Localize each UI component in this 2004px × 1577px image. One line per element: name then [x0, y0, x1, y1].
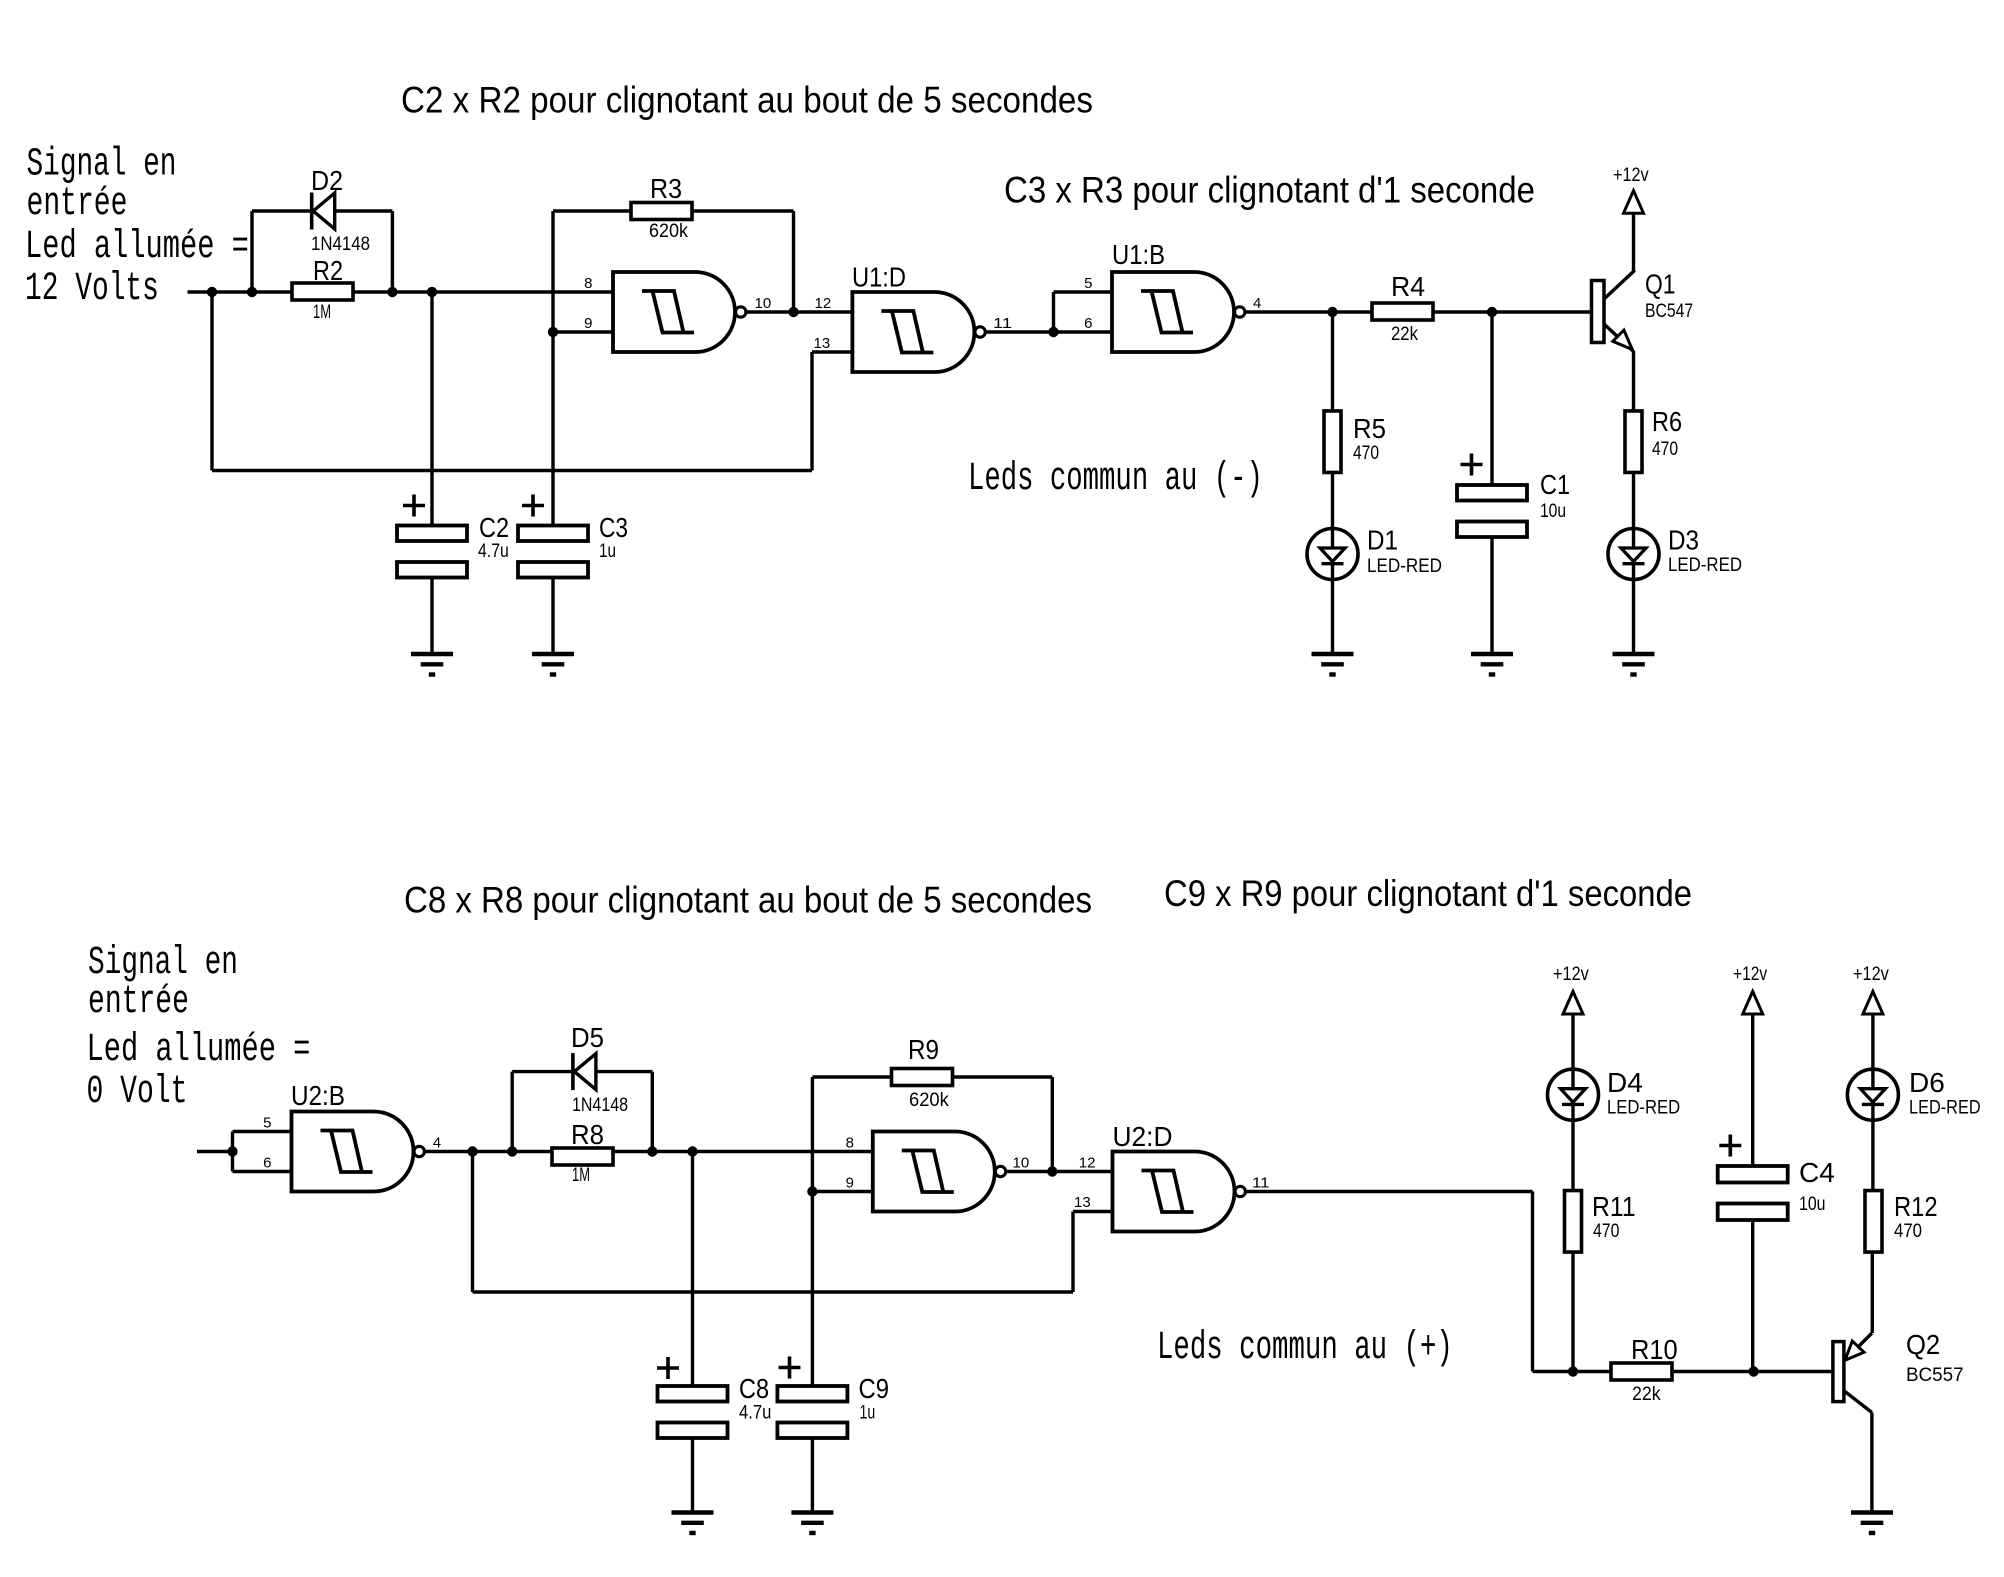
wire Q2 emitter to ground: [1870, 1413, 1873, 1513]
label R3: [650, 173, 682, 204]
svg-text:6: 6: [263, 1155, 271, 1172]
junction out-feedback: [467, 1146, 477, 1156]
wire feedback right vertical: [810, 352, 813, 471]
wire Q1 emitter down: [1632, 351, 1635, 411]
svg-text:entrée: entrée: [27, 182, 128, 227]
ground Q2: [1851, 1513, 1893, 1534]
svg-text:+12v: +12v: [1853, 964, 1889, 985]
title C3xR3: [1004, 170, 1535, 211]
power +12v D4: [1553, 964, 1589, 985]
junction C2 top: [427, 287, 437, 297]
svg-text:11: 11: [1252, 1175, 1270, 1192]
wire D2 top right: [335, 209, 393, 212]
svg-text:1u: 1u: [599, 541, 616, 562]
text Leds commun au plus: [1157, 1325, 1453, 1371]
wire fb right vertical: [1071, 1212, 1074, 1293]
value C1 10u: [1540, 501, 1566, 522]
svg-text:Leds commun au (+): Leds commun au (+): [1157, 1325, 1453, 1371]
power arrow D6: [1863, 991, 1883, 1014]
svg-text:8: 8: [846, 1135, 854, 1152]
pin 9 label: [584, 315, 592, 332]
wire R3 top right: [692, 209, 794, 212]
wire C9 to ground: [811, 1438, 814, 1513]
svg-text:BC547: BC547: [1645, 301, 1693, 322]
wire pin9 stub: [553, 330, 613, 333]
svg-text:LED-RED: LED-RED: [1909, 1098, 1981, 1119]
power +12v D6: [1853, 964, 1889, 985]
label R5: [1353, 413, 1386, 444]
nand gate U2:D: [1113, 1152, 1246, 1232]
svg-text:5: 5: [1084, 275, 1092, 292]
value BC547: [1645, 301, 1693, 322]
junction gate1 out: [788, 307, 798, 317]
text Led allumee (top): [25, 225, 249, 270]
label C4: [1799, 1157, 1835, 1188]
wire U2:B pin5 stub: [233, 1130, 292, 1133]
label D4: [1607, 1067, 1643, 1098]
pin 12 label U2:D: [1079, 1155, 1096, 1172]
value R6 470: [1652, 439, 1678, 460]
plus C8: [657, 1357, 679, 1379]
title C2xR2: [401, 80, 1093, 121]
svg-text:4.7u: 4.7u: [739, 1403, 771, 1424]
wire C2 vertical: [430, 292, 433, 526]
resistor R10: [1611, 1363, 1672, 1380]
resistor R6: [1625, 411, 1642, 473]
svg-text:C2 x R2 pour clignotant au bou: C2 x R2 pour clignotant au bout de 5 sec…: [401, 80, 1093, 121]
wire +12v to C4: [1751, 1014, 1754, 1166]
wire R9 right vertical: [1051, 1077, 1054, 1172]
wire C8 to ground: [691, 1438, 694, 1513]
wire input main: [188, 290, 614, 293]
wire D6 to R12: [1871, 1120, 1874, 1190]
value C4 10u: [1799, 1194, 1826, 1215]
wire +12v to D6: [1871, 1014, 1874, 1069]
pin 10 label: [755, 295, 772, 312]
wire out down: [1531, 1192, 1534, 1372]
wire feedback left vertical: [210, 292, 213, 471]
svg-text:+12v: +12v: [1613, 165, 1649, 186]
text Leds commun au moins: [968, 456, 1263, 502]
pin 6 label U2:B: [263, 1155, 271, 1172]
ground C9: [791, 1513, 833, 1534]
junction U2:C out: [1047, 1166, 1057, 1176]
svg-text:C1: C1: [1540, 469, 1570, 500]
svg-text:8: 8: [584, 275, 592, 292]
wire pin13 stub U1:D: [812, 350, 852, 353]
wire input bottom: [197, 1150, 233, 1153]
wire R9 top left: [812, 1075, 891, 1078]
value R5 470: [1353, 443, 1379, 464]
value D3 LED-RED: [1668, 555, 1742, 576]
wire pin9 stub U2:C: [812, 1190, 872, 1193]
value 620k bottom: [909, 1090, 949, 1111]
svg-text:4.7u: 4.7u: [478, 541, 509, 562]
svg-text:C9 x R9 pour clignotant d'1 se: C9 x R9 pour clignotant d'1 seconde: [1164, 873, 1692, 914]
wire D2 right vertical: [391, 211, 394, 292]
resistor R11: [1565, 1191, 1582, 1253]
value 22k: [1391, 324, 1418, 345]
pin 4 label: [1253, 295, 1261, 312]
nand gate U1:B: [1112, 272, 1245, 352]
svg-text:1N4148: 1N4148: [572, 1095, 628, 1116]
wire +12v to Q1: [1632, 213, 1635, 271]
transistor Q1: [1592, 270, 1635, 351]
ground C1: [1471, 654, 1513, 675]
pin 9 label U2:C: [846, 1175, 854, 1192]
text Signal en (bottom): [88, 940, 238, 985]
led D3: [1608, 529, 1659, 580]
wire C8 vertical: [691, 1152, 694, 1387]
wire C9 vertical: [811, 1192, 814, 1387]
label C1: [1540, 469, 1570, 500]
wire out to R10: [1533, 1370, 1612, 1373]
svg-text:R10: R10: [1631, 1334, 1678, 1365]
diode D2: [312, 193, 335, 230]
label R11: [1592, 1191, 1636, 1222]
junction D2 right: [387, 287, 397, 297]
wire R3 left vertical: [551, 211, 554, 332]
title C9xR9: [1164, 873, 1692, 914]
transistor Q2: [1833, 1333, 1872, 1413]
pin 8 label U2:C: [846, 1135, 854, 1152]
svg-text:10u: 10u: [1799, 1194, 1826, 1215]
pin 13 label: [814, 335, 831, 352]
svg-text:4: 4: [433, 1135, 441, 1152]
junction C8 top: [687, 1146, 697, 1156]
svg-text:R3: R3: [650, 173, 682, 204]
wire R12 to Q2: [1871, 1252, 1874, 1333]
svg-text:13: 13: [1074, 1194, 1091, 1211]
title C8xR8: [404, 880, 1092, 921]
label D5: [571, 1022, 604, 1053]
label D6: [1909, 1067, 1945, 1098]
label R12: [1894, 1191, 1938, 1222]
svg-text:D2: D2: [311, 165, 343, 196]
svg-text:LED-RED: LED-RED: [1607, 1098, 1680, 1119]
svg-text:10: 10: [755, 295, 772, 312]
wire gate1 out: [747, 310, 853, 313]
label C2: [479, 512, 509, 543]
wire C1 vertical: [1490, 312, 1493, 485]
capacitor C4: [1718, 1166, 1788, 1220]
wire U1:D out: [986, 330, 1054, 333]
svg-text:C3 x R3 pour clignotant d'1 se: C3 x R3 pour clignotant d'1 seconde: [1004, 170, 1535, 211]
value R12 470: [1894, 1221, 1922, 1242]
pin 13 label U2:D: [1074, 1194, 1091, 1211]
wire pin13 stub U2:D: [1073, 1210, 1113, 1213]
text Signal en (top): [27, 142, 177, 187]
junction pin9 node: [548, 327, 558, 337]
wire D5 top left: [512, 1070, 573, 1073]
label U2:B: [291, 1080, 345, 1111]
svg-text:D4: D4: [1607, 1067, 1643, 1098]
label R2: [313, 255, 343, 286]
wire gate U2:C out: [1006, 1170, 1112, 1173]
pin 10 label U2:C: [1013, 1155, 1030, 1172]
pin 5 label U2:B: [263, 1115, 271, 1132]
svg-text:D1: D1: [1367, 525, 1398, 556]
junction C1 top: [1487, 307, 1497, 317]
svg-text:22k: 22k: [1632, 1384, 1661, 1405]
svg-text:620k: 620k: [649, 221, 688, 242]
svg-text:C8 x R8 pour clignotant au bou: C8 x R8 pour clignotant au bout de 5 sec…: [404, 880, 1092, 921]
label C3: [599, 512, 628, 543]
svg-text:4: 4: [1253, 295, 1261, 312]
svg-text:470: 470: [1652, 439, 1678, 460]
wire pin5 stub: [1054, 290, 1113, 293]
label R4: [1391, 271, 1425, 302]
svg-text:+12v: +12v: [1733, 964, 1768, 985]
wire U2:B out: [425, 1150, 552, 1153]
led D4: [1548, 1069, 1599, 1120]
svg-text:10: 10: [1013, 1155, 1030, 1172]
value BC557: [1906, 1365, 1964, 1386]
resistor R3: [631, 203, 692, 220]
capacitor C9: [777, 1386, 847, 1438]
wire D5 top right: [596, 1070, 652, 1073]
wire C4 to junction: [1751, 1219, 1754, 1372]
wire D1 to ground: [1331, 580, 1334, 655]
capacitor C3: [518, 526, 588, 578]
svg-text:R2: R2: [313, 255, 343, 286]
text Led allumee (bottom): [87, 1028, 311, 1073]
svg-text:12: 12: [815, 295, 832, 312]
value D1 LED-RED: [1367, 556, 1442, 577]
svg-text:LED-RED: LED-RED: [1668, 555, 1742, 576]
wire U2:B bracket: [231, 1132, 234, 1172]
wire D3 to ground: [1632, 580, 1635, 655]
svg-text:0 Volt: 0 Volt: [87, 1070, 188, 1115]
svg-text:U2:D: U2:D: [1113, 1121, 1173, 1152]
pin 4 label U2:B: [433, 1135, 441, 1152]
wire U1:B out: [1245, 310, 1372, 313]
wire R3 right vertical: [792, 211, 795, 312]
label D3: [1668, 525, 1699, 556]
value R11 470: [1593, 1221, 1619, 1242]
svg-text:+12v: +12v: [1553, 964, 1589, 985]
resistor R2: [292, 283, 353, 300]
ground C8: [672, 1513, 714, 1534]
svg-text:R6: R6: [1652, 406, 1682, 437]
pin 5 label: [1084, 275, 1092, 292]
label D1: [1367, 525, 1398, 556]
power arrow C4: [1743, 991, 1763, 1014]
svg-text:470: 470: [1353, 443, 1379, 464]
diode D5: [573, 1053, 596, 1090]
value C2 4.7u: [478, 541, 509, 562]
pin 11 label U2:D: [1252, 1175, 1270, 1192]
svg-text:12: 12: [1079, 1155, 1096, 1172]
pin 11 label: [993, 315, 1012, 332]
svg-text:5: 5: [263, 1115, 271, 1132]
wire pin6 stub: [1054, 330, 1113, 333]
text 0 Volt: [87, 1070, 188, 1115]
svg-text:R4: R4: [1391, 271, 1425, 302]
svg-text:R12: R12: [1894, 1191, 1938, 1222]
ground C3: [532, 654, 574, 675]
svg-text:470: 470: [1894, 1221, 1922, 1242]
resistor R4: [1372, 303, 1433, 320]
power +12v Q1: [1613, 165, 1649, 186]
svg-text:Led allumée =: Led allumée =: [87, 1028, 311, 1073]
svg-text:1M: 1M: [572, 1165, 590, 1186]
pin 12 label: [815, 295, 832, 312]
svg-text:Leds commun au (-): Leds commun au (-): [968, 456, 1263, 502]
wire D5 left vertical: [511, 1072, 514, 1152]
power +12v C4: [1733, 964, 1768, 985]
junction D5 left: [507, 1146, 517, 1156]
wire U1:B bracket: [1052, 292, 1055, 332]
plus C2: [403, 495, 425, 517]
svg-text:D6: D6: [1909, 1067, 1945, 1098]
resistor R5: [1324, 411, 1341, 473]
svg-text:R5: R5: [1353, 413, 1386, 444]
svg-text:12 Volts: 12 Volts: [25, 267, 159, 312]
ground D3: [1613, 654, 1655, 675]
wire C3 to ground: [551, 578, 554, 655]
junction D2 left: [247, 287, 257, 297]
wire D5 right vertical: [651, 1072, 654, 1152]
svg-text:C9: C9: [859, 1373, 890, 1404]
wire R9 left vertical: [811, 1077, 814, 1192]
svg-text:LED-RED: LED-RED: [1367, 556, 1442, 577]
wire +12v to D4: [1571, 1014, 1574, 1069]
label U1:B: [1112, 239, 1165, 270]
svg-text:D5: D5: [571, 1022, 604, 1053]
value D5 1N4148: [572, 1095, 628, 1116]
value D6 LED-RED: [1909, 1098, 1981, 1119]
wire fb left vertical: [471, 1152, 474, 1293]
svg-text:Signal en: Signal en: [27, 142, 177, 187]
svg-text:BC557: BC557: [1906, 1365, 1964, 1386]
svg-text:C8: C8: [739, 1373, 769, 1404]
value R10 22k: [1632, 1384, 1661, 1405]
svg-text:R8: R8: [571, 1119, 604, 1150]
plus C9: [779, 1357, 801, 1379]
junction U1:B input: [1048, 327, 1058, 337]
pin 8 label: [584, 275, 592, 292]
wire R9 top right: [953, 1075, 1052, 1078]
svg-text:U1:D: U1:D: [852, 262, 906, 293]
svg-text:10u: 10u: [1540, 501, 1566, 522]
nand gate U2:B: [292, 1112, 425, 1192]
svg-text:22k: 22k: [1391, 324, 1418, 345]
label D2: [311, 165, 343, 196]
capacitor C8: [658, 1386, 728, 1438]
label Q2: [1906, 1329, 1940, 1360]
label C8: [739, 1373, 769, 1404]
resistor R9: [892, 1069, 953, 1086]
svg-text:D3: D3: [1668, 525, 1699, 556]
svg-text:Led allumée =: Led allumée =: [25, 225, 249, 270]
text entree (top): [27, 182, 128, 227]
label C9: [859, 1373, 890, 1404]
svg-text:C4: C4: [1799, 1157, 1835, 1188]
wire C2 to ground: [430, 578, 433, 655]
wire R6 to D3: [1632, 473, 1635, 529]
plus C4: [1719, 1135, 1741, 1157]
wire feedback bottom: [212, 469, 812, 472]
plus C3: [522, 495, 544, 517]
svg-text:470: 470: [1593, 1221, 1619, 1242]
label R9: [908, 1034, 939, 1065]
wire R5 top: [1331, 312, 1334, 411]
wire U2:D out: [1246, 1190, 1533, 1193]
value R8 1M: [572, 1165, 590, 1186]
svg-text:C3: C3: [599, 512, 628, 543]
value 1N4148: [311, 234, 370, 255]
nand gate U1 pins 8-9-10: [613, 272, 746, 352]
led D6: [1847, 1069, 1898, 1120]
svg-text:U2:B: U2:B: [291, 1080, 345, 1111]
wire R8 to gate: [613, 1150, 873, 1153]
svg-text:9: 9: [846, 1175, 854, 1192]
power arrow D4: [1563, 991, 1583, 1014]
value 620k: [649, 221, 688, 242]
svg-text:13: 13: [814, 335, 831, 352]
label U2:D: [1113, 1121, 1173, 1152]
svg-text:C2: C2: [479, 512, 509, 543]
wire D4 to R11: [1571, 1120, 1574, 1190]
pin 6 label: [1084, 315, 1092, 332]
plus C1: [1461, 454, 1483, 476]
svg-text:6: 6: [1084, 315, 1092, 332]
value C3 1u: [599, 541, 616, 562]
svg-text:9: 9: [584, 315, 592, 332]
label R10: [1631, 1334, 1678, 1365]
ground C2: [411, 654, 453, 675]
svg-text:R11: R11: [1592, 1191, 1636, 1222]
power arrow Q1: [1624, 191, 1644, 214]
wire C1 to ground: [1490, 537, 1493, 654]
wire R4 to Q1: [1433, 310, 1592, 313]
junction D5 right: [647, 1146, 657, 1156]
label Q1: [1645, 269, 1676, 300]
junction input-feedback: [207, 287, 217, 297]
wire R3 top left: [553, 209, 631, 212]
svg-text:Q1: Q1: [1645, 269, 1676, 300]
value 1M: [313, 302, 331, 323]
svg-text:R9: R9: [908, 1034, 939, 1065]
value C9 1u: [860, 1403, 876, 1424]
svg-text:1M: 1M: [313, 302, 331, 323]
junction pin9 node U2:C: [807, 1186, 817, 1196]
text 12 Volts: [25, 267, 159, 312]
capacitor C2: [397, 526, 467, 578]
nand gate U1:D: [852, 292, 985, 372]
svg-text:entrée: entrée: [88, 980, 189, 1025]
svg-text:U1:B: U1:B: [1112, 239, 1165, 270]
svg-text:Q2: Q2: [1906, 1329, 1940, 1360]
label R8: [571, 1119, 604, 1150]
label R6: [1652, 406, 1682, 437]
label U1:D: [852, 262, 906, 293]
value D4 LED-RED: [1607, 1098, 1680, 1119]
resistor R12: [1865, 1191, 1882, 1253]
wire D2 left vertical: [250, 211, 253, 292]
wire D2 top left: [252, 209, 312, 212]
wire C3 vertical: [551, 332, 554, 526]
led D1: [1307, 529, 1358, 580]
resistor R8: [552, 1148, 613, 1165]
svg-text:1N4148: 1N4148: [311, 234, 370, 255]
ground D1: [1312, 654, 1354, 675]
junction input U2:B: [227, 1146, 237, 1156]
svg-text:1u: 1u: [860, 1403, 876, 1424]
value C8 4.7u: [739, 1403, 771, 1424]
svg-text:11: 11: [993, 315, 1012, 332]
